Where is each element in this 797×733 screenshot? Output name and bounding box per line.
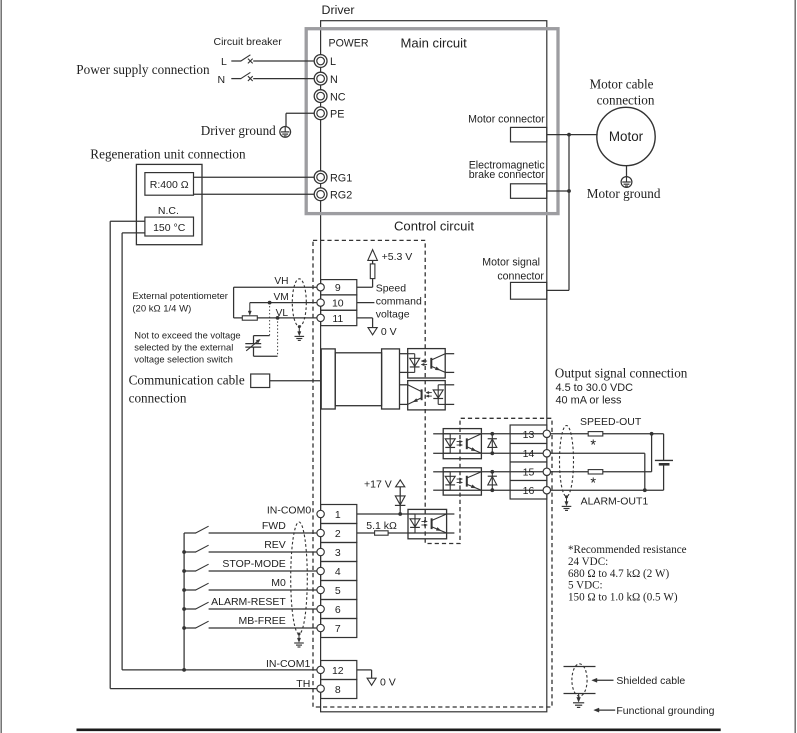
- svg-text:Not to exceed the voltage: Not to exceed the voltage: [134, 330, 240, 341]
- svg-text:brake connector: brake connector: [469, 169, 545, 181]
- svg-text:R:400 Ω: R:400 Ω: [150, 179, 189, 191]
- svg-text:M0: M0: [271, 577, 286, 589]
- svg-text:Motor ground: Motor ground: [587, 186, 661, 201]
- svg-text:RG1: RG1: [330, 172, 352, 184]
- svg-text:Driver ground: Driver ground: [201, 123, 276, 138]
- svg-text:TH: TH: [296, 678, 310, 690]
- svg-text:RG2: RG2: [330, 190, 352, 202]
- svg-text:MB-FREE: MB-FREE: [239, 615, 286, 627]
- svg-text:*: *: [590, 475, 596, 491]
- svg-text:10: 10: [332, 298, 344, 310]
- svg-text:Motor connector: Motor connector: [468, 113, 545, 125]
- svg-text:Regeneration unit connection: Regeneration unit connection: [90, 147, 246, 162]
- svg-text:8: 8: [335, 684, 341, 696]
- svg-text:Motor: Motor: [609, 129, 644, 144]
- svg-text:Output signal connection: Output signal connection: [555, 365, 688, 380]
- svg-text:connection: connection: [597, 92, 655, 107]
- svg-text:14: 14: [523, 448, 535, 460]
- svg-text:L: L: [330, 56, 336, 68]
- svg-text:voltage: voltage: [376, 309, 410, 321]
- svg-text:4: 4: [335, 566, 341, 578]
- svg-text:11: 11: [332, 313, 343, 325]
- svg-text:3: 3: [335, 547, 341, 559]
- svg-text:Functional grounding: Functional grounding: [616, 705, 714, 717]
- svg-text:16: 16: [523, 485, 535, 497]
- svg-text:POWER: POWER: [329, 38, 369, 50]
- svg-text:680 Ω to 4.7 kΩ (2 W): 680 Ω to 4.7 kΩ (2 W): [568, 568, 670, 580]
- svg-text:Speed: Speed: [376, 282, 407, 294]
- svg-text:2: 2: [335, 528, 341, 540]
- svg-text:PE: PE: [330, 109, 344, 121]
- svg-text:ALARM-OUT1: ALARM-OUT1: [581, 496, 649, 508]
- svg-text:Power supply connection: Power supply connection: [76, 62, 210, 77]
- svg-text:L: L: [221, 56, 227, 68]
- svg-text:1: 1: [335, 509, 341, 521]
- svg-text:Motor signal: Motor signal: [482, 257, 540, 269]
- svg-text:4.5 to 30.0 VDC: 4.5 to 30.0 VDC: [556, 382, 634, 394]
- svg-text:Control circuit: Control circuit: [394, 218, 474, 233]
- svg-text:+5.3 V: +5.3 V: [382, 251, 413, 263]
- svg-text:6: 6: [335, 604, 341, 616]
- svg-text:voltage selection switch: voltage selection switch: [134, 354, 233, 365]
- svg-text:Driver: Driver: [322, 3, 355, 17]
- svg-text:REV: REV: [264, 539, 286, 551]
- svg-text:N: N: [330, 74, 338, 86]
- svg-text:5 VDC:: 5 VDC:: [568, 580, 603, 592]
- svg-text:connection: connection: [129, 391, 187, 406]
- svg-text:SPEED-OUT: SPEED-OUT: [580, 416, 642, 428]
- svg-text:13: 13: [523, 429, 535, 441]
- svg-text:N.C.: N.C.: [158, 205, 179, 217]
- svg-text:40 mA or less: 40 mA or less: [556, 395, 623, 407]
- svg-text:IN-COM1: IN-COM1: [266, 658, 310, 670]
- svg-text:5.1 kΩ: 5.1 kΩ: [366, 520, 397, 532]
- svg-text:N: N: [218, 74, 226, 86]
- svg-text:Communication cable: Communication cable: [129, 373, 245, 388]
- svg-text:connector: connector: [497, 271, 544, 283]
- svg-text:FWD: FWD: [262, 520, 286, 532]
- svg-text:12: 12: [332, 665, 344, 677]
- svg-text:*: *: [590, 438, 596, 454]
- svg-text:Shielded cable: Shielded cable: [616, 675, 685, 687]
- svg-text:150 °C: 150 °C: [153, 222, 186, 234]
- svg-text:External potentiometer: External potentiometer: [132, 291, 228, 302]
- svg-text:STOP-MODE: STOP-MODE: [222, 558, 285, 570]
- svg-text:*Recommended resistance: *Recommended resistance: [568, 544, 687, 556]
- svg-text:Main circuit: Main circuit: [401, 35, 468, 50]
- svg-text:15: 15: [523, 467, 535, 479]
- svg-text:ALARM-RESET: ALARM-RESET: [211, 596, 286, 608]
- svg-text:24 VDC:: 24 VDC:: [568, 556, 608, 568]
- svg-text:command: command: [376, 296, 422, 308]
- svg-text:Motor cable: Motor cable: [589, 76, 653, 91]
- svg-text:+17 V: +17 V: [364, 479, 392, 491]
- svg-text:NC: NC: [330, 91, 346, 103]
- svg-text:IN-COM0: IN-COM0: [267, 505, 311, 517]
- svg-text:selected by the external: selected by the external: [134, 342, 233, 353]
- svg-text:VM: VM: [274, 292, 289, 303]
- svg-text:9: 9: [335, 282, 341, 294]
- svg-text:150 Ω to 1.0 kΩ (0.5 W): 150 Ω to 1.0 kΩ (0.5 W): [568, 591, 678, 603]
- svg-text:0 V: 0 V: [380, 676, 396, 688]
- svg-text:VH: VH: [274, 276, 288, 287]
- svg-text:(20 kΩ 1/4 W): (20 kΩ 1/4 W): [132, 304, 191, 315]
- svg-text:0 V: 0 V: [381, 326, 397, 338]
- svg-text:5: 5: [335, 585, 341, 597]
- svg-text:Circuit breaker: Circuit breaker: [214, 36, 283, 48]
- svg-text:7: 7: [335, 623, 341, 635]
